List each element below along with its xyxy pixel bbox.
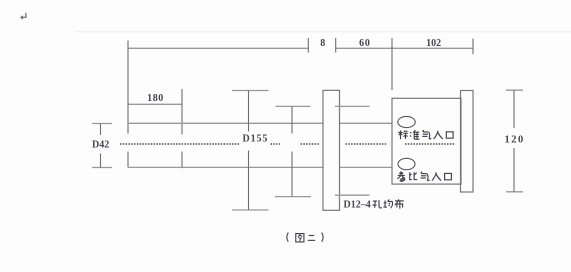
120 dim bottom cap	[506, 191, 523, 193]
neck bottom line	[340, 166, 393, 168]
pipe top line	[128, 122, 323, 124]
bolt circle dim line upper	[291, 106, 293, 133]
svg-text:60: 60	[359, 38, 371, 49]
D155 dim top cap	[232, 90, 269, 92]
dim line 180	[128, 103, 182, 105]
standard gas port ellipse	[398, 116, 415, 127]
svg-text:D12–4: D12–4	[344, 200, 371, 211]
label holes evenly distributed	[372, 199, 403, 208]
paragraph return mark	[20, 13, 26, 20]
D42 dim line upper	[100, 124, 102, 136]
D42 dim line lower	[100, 154, 102, 168]
weld tick at x182 lower	[181, 152, 183, 169]
reference gas port ellipse	[398, 158, 415, 169]
right flange	[461, 91, 474, 193]
centerline segment 2	[271, 143, 281, 145]
120 dim line upper	[513, 90, 515, 128]
bolt mark bottom on flange	[335, 194, 370, 196]
120 dim top cap	[506, 89, 523, 91]
pipe left edge lower	[127, 152, 129, 168]
bolt circle dim line lower	[291, 152, 293, 197]
bolt mark top on flange	[335, 105, 370, 107]
left flange	[323, 90, 340, 210]
caption figure two	[287, 233, 323, 242]
tick at x335	[335, 38, 337, 53]
centerline segment 3	[301, 143, 320, 145]
faint page rule	[75, 31, 571, 33]
tick at x308	[307, 38, 309, 53]
D155 dim line upper	[248, 91, 250, 132]
tick at x392 extension to block	[391, 38, 393, 90]
svg-text:D42: D42	[92, 140, 109, 151]
neck top line	[340, 122, 393, 124]
svg-text:180: 180	[147, 93, 164, 104]
centerline segment 1	[120, 143, 241, 145]
svg-text:120: 120	[505, 135, 525, 146]
pipe left edge upper	[127, 41, 129, 134]
D42 dim top cap	[92, 123, 112, 125]
D42 dim bottom cap	[92, 167, 112, 169]
gas block body	[392, 98, 461, 184]
svg-text:102: 102	[426, 38, 441, 49]
svg-text:D155: D155	[243, 134, 269, 145]
pipe bottom line	[128, 166, 323, 168]
D155 dim bottom cap	[232, 209, 269, 211]
label standard gas inlet	[398, 130, 453, 139]
weld tick at x182 upper	[181, 89, 183, 135]
top dimension line right segment	[336, 47, 473, 49]
D155 dim line lower	[248, 151, 250, 211]
bolt circle dim top cap	[276, 105, 311, 107]
bolt circle dim bottom cap	[275, 196, 311, 198]
centerline segment 5	[405, 143, 456, 145]
svg-text:8: 8	[320, 38, 325, 49]
centerline segment 4	[346, 143, 388, 145]
120 dim line lower	[513, 148, 515, 192]
tick at x473	[472, 39, 474, 55]
label reference gas inlet	[397, 172, 451, 182]
top dimension line left segment	[128, 47, 308, 49]
